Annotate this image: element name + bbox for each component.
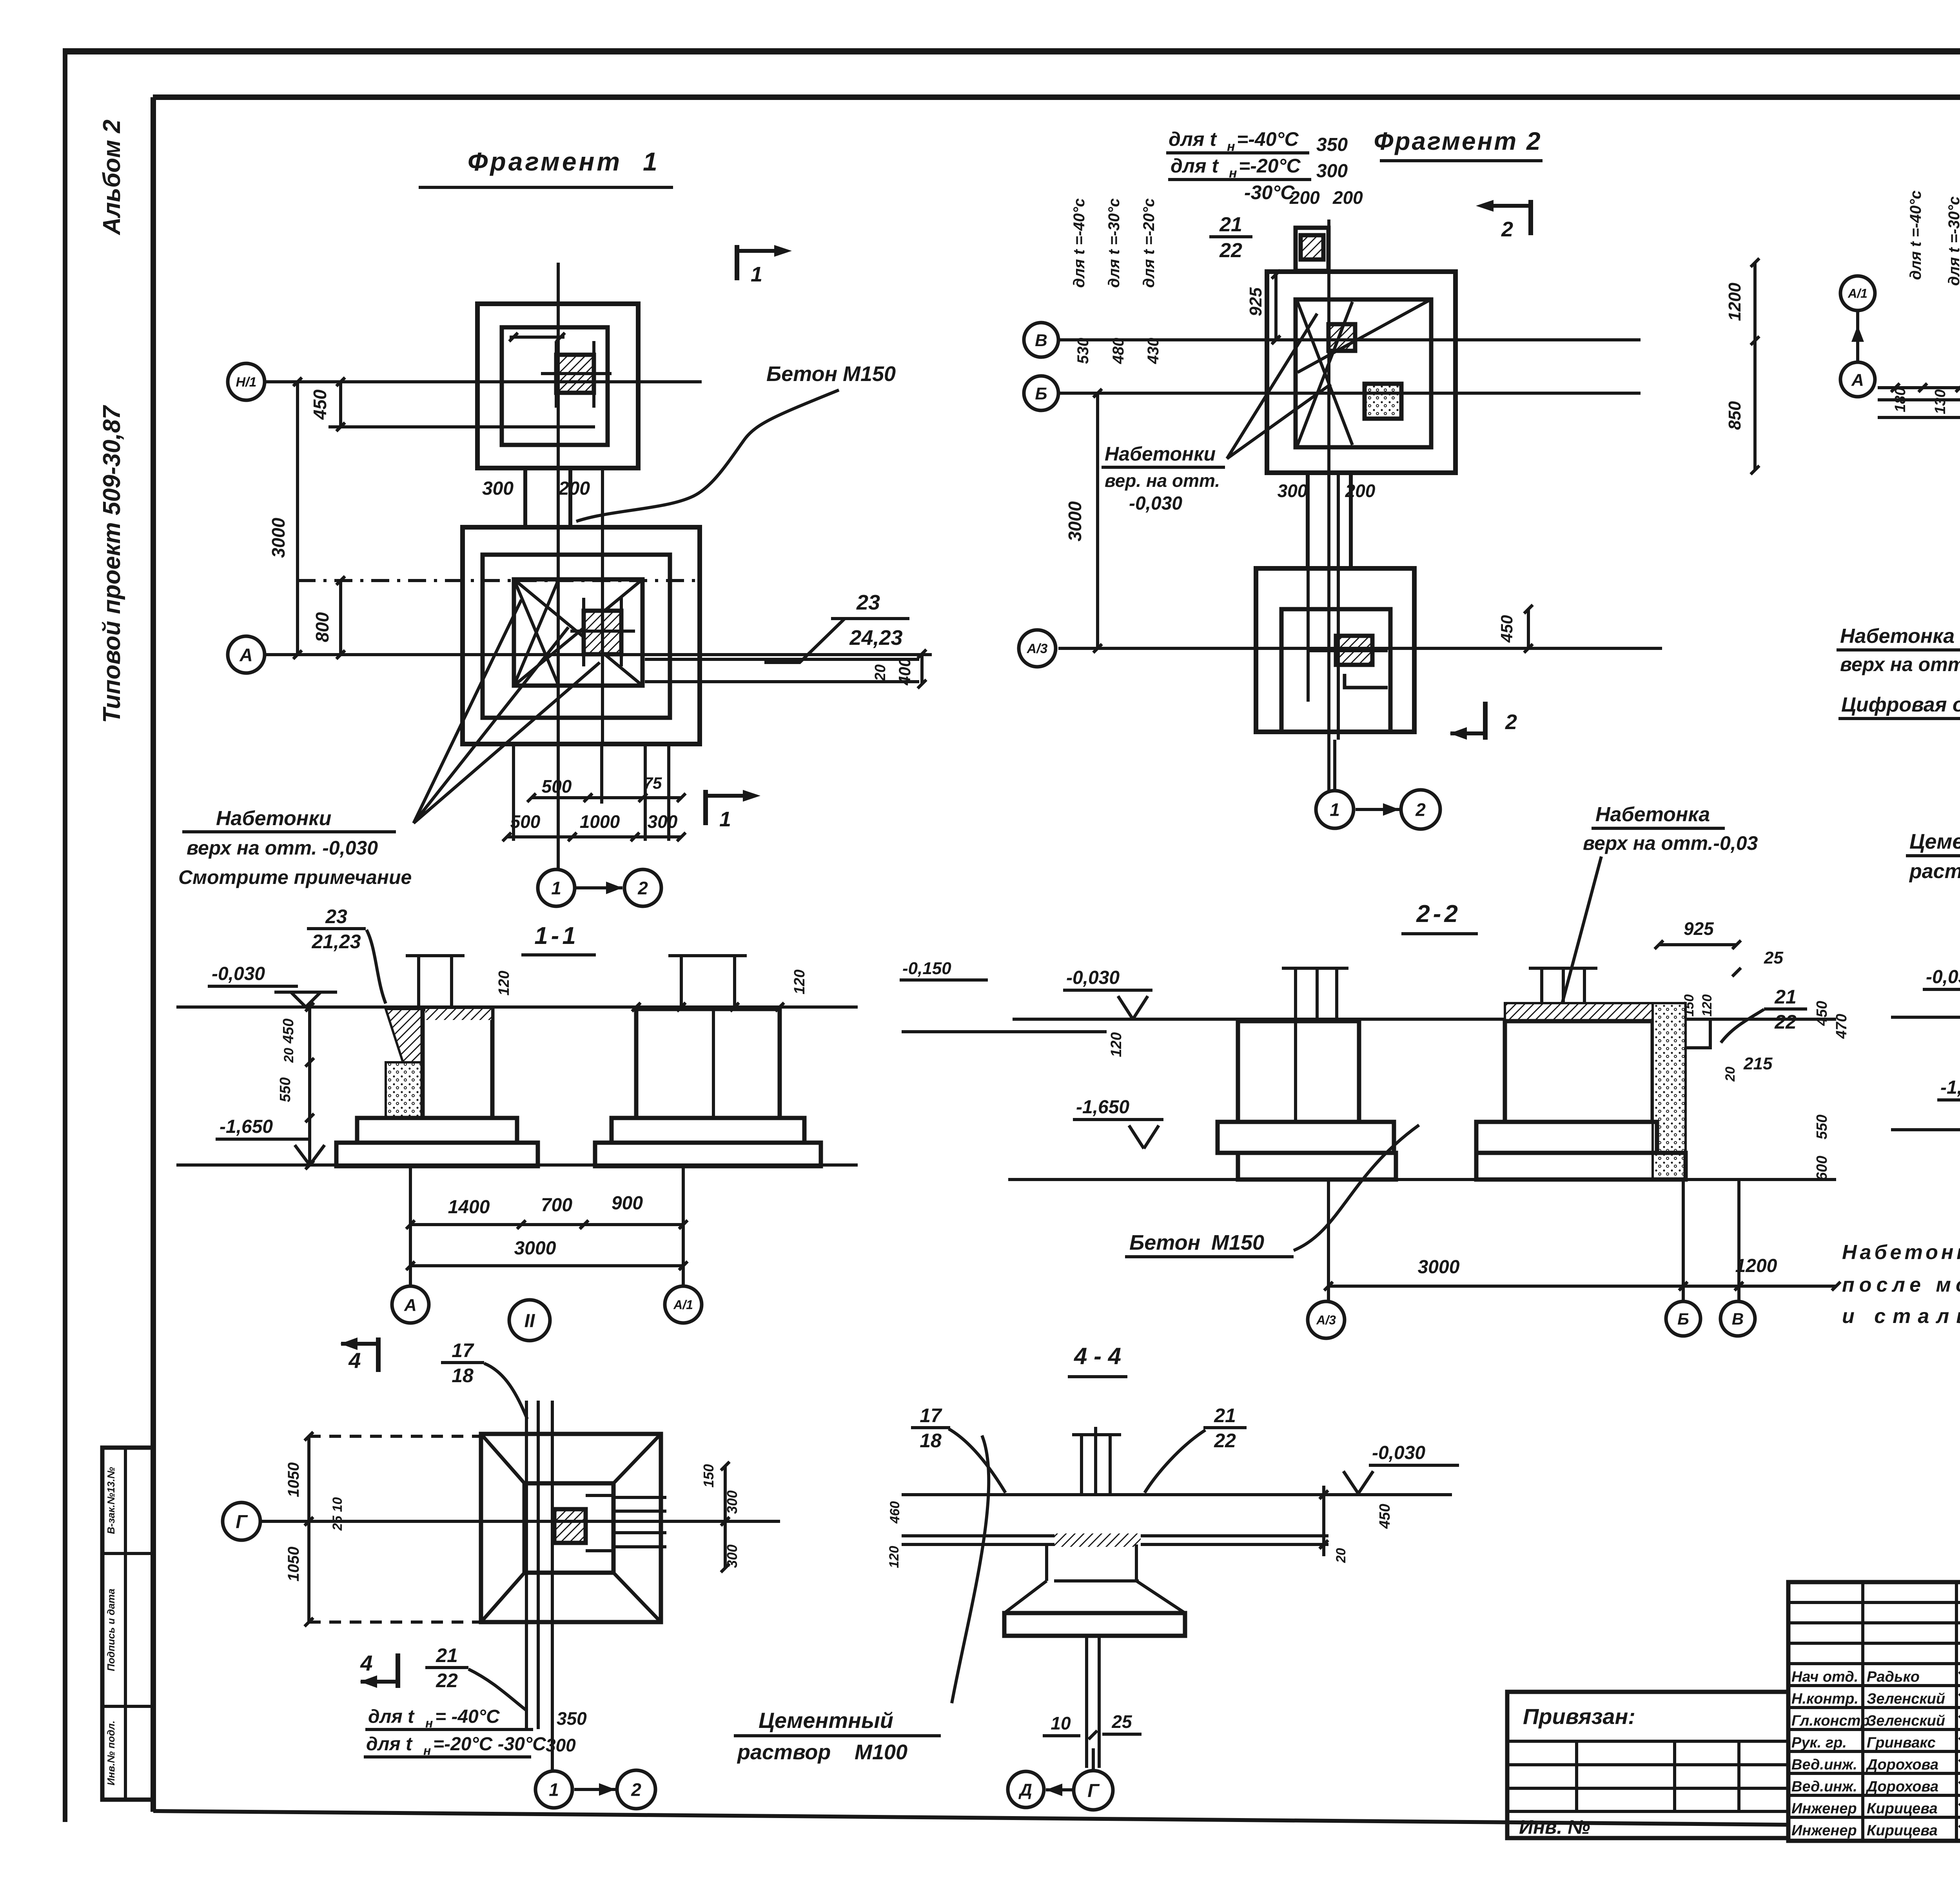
svg-text:450: 450 — [280, 1018, 297, 1043]
svg-text:-30°С: -30°С — [1244, 181, 1295, 203]
svg-text:1: 1 — [549, 1780, 559, 1800]
svg-text:700: 700 — [541, 1195, 572, 1216]
svg-text:-1,650: -1,650 — [1076, 1097, 1129, 1118]
svg-text:800: 800 — [312, 612, 332, 642]
svg-text:= -40°С: = -40°С — [435, 1706, 500, 1727]
svg-text:350: 350 — [1316, 134, 1348, 155]
svg-text:А/1: А/1 — [673, 1298, 693, 1312]
svg-text:2-2: 2-2 — [1416, 900, 1461, 927]
svg-text:470: 470 — [1833, 1014, 1850, 1039]
svg-text:А/3: А/3 — [1316, 1313, 1336, 1327]
svg-text:-0,150: -0,150 — [902, 959, 951, 978]
svg-text:18: 18 — [920, 1430, 942, 1452]
svg-text:300: 300 — [1278, 481, 1308, 501]
svg-text:300: 300 — [546, 1735, 576, 1755]
svg-text:и стальных стоек.: и стальных стоек. — [1842, 1305, 1960, 1328]
svg-text:А: А — [1851, 370, 1864, 390]
svg-text:Бетон: Бетон — [1129, 1231, 1200, 1254]
svg-text:21: 21 — [1214, 1405, 1236, 1426]
svg-text:23: 23 — [856, 591, 880, 614]
svg-text:925: 925 — [1246, 287, 1265, 316]
svg-text:200: 200 — [1289, 187, 1320, 208]
svg-text:А: А — [239, 645, 252, 665]
svg-text:-0,030: -0,030 — [212, 964, 265, 984]
svg-text:4 - 4: 4 - 4 — [1074, 1343, 1121, 1369]
svg-text:500: 500 — [542, 776, 572, 797]
svg-text:120: 120 — [791, 969, 808, 994]
svg-text:Цементный: Цементный — [1909, 830, 1960, 853]
svg-text:Зеленский: Зеленский — [1867, 1691, 1945, 1707]
svg-text:Вед.инж.: Вед.инж. — [1791, 1778, 1857, 1795]
svg-text:120: 120 — [1108, 1032, 1125, 1057]
svg-text:550: 550 — [1814, 1114, 1830, 1139]
svg-text:Инв. №: Инв. № — [1519, 1816, 1590, 1838]
svg-text:Гл.констр: Гл.констр — [1791, 1713, 1870, 1729]
svg-text:150: 150 — [1682, 994, 1697, 1017]
svg-text:для t: для t — [1171, 155, 1219, 177]
svg-text:-0,030: -0,030 — [1926, 967, 1960, 987]
svg-text:Рук. гр.: Рук. гр. — [1791, 1735, 1847, 1751]
svg-text:300: 300 — [648, 811, 678, 832]
svg-text:430: 430 — [1145, 338, 1162, 365]
svg-text:верх на отт. -0,030: верх на отт. -0,030 — [187, 837, 378, 859]
svg-text:120: 120 — [887, 1546, 902, 1568]
svg-text:для t =-20°с: для t =-20°с — [1140, 198, 1158, 288]
svg-text:раствор: раствор — [737, 1740, 831, 1764]
svg-text:2: 2 — [1415, 800, 1426, 820]
svg-text:В: В — [1035, 331, 1047, 350]
svg-text:Инв.№ подл.: Инв.№ подл. — [105, 1720, 117, 1786]
svg-text:1: 1 — [643, 147, 657, 176]
svg-text:Н/1: Н/1 — [236, 375, 257, 390]
svg-text:Фрагмент: Фрагмент — [468, 147, 622, 176]
svg-text:1200: 1200 — [1725, 283, 1744, 321]
svg-text:для t =-30°с: для t =-30°с — [1105, 198, 1123, 288]
svg-text:400: 400 — [895, 658, 914, 686]
svg-text:22: 22 — [1219, 239, 1242, 262]
svg-text:21: 21 — [436, 1644, 458, 1666]
svg-text:21: 21 — [1219, 213, 1242, 236]
svg-text:3000: 3000 — [514, 1238, 556, 1259]
svg-text:2: 2 — [1505, 710, 1517, 734]
svg-text:Смотрите примечание: Смотрите примечание — [178, 866, 412, 888]
svg-text:500: 500 — [510, 811, 541, 832]
svg-text:для t: для t — [366, 1734, 413, 1755]
svg-text:Набетонка: Набетонка — [1840, 625, 1955, 648]
svg-text:3000: 3000 — [268, 517, 289, 558]
svg-text:Альбом 2: Альбом 2 — [98, 120, 125, 236]
svg-text:Привязан:: Привязан: — [1523, 1704, 1635, 1729]
svg-text:18: 18 — [452, 1365, 474, 1386]
svg-text:1050: 1050 — [285, 1463, 302, 1497]
svg-text:480: 480 — [1110, 338, 1127, 365]
svg-text:=-20°С -30°С: =-20°С -30°С — [433, 1734, 546, 1755]
svg-text:22: 22 — [1774, 1011, 1797, 1033]
svg-text:для t =-40°с: для t =-40°с — [1071, 198, 1088, 288]
svg-text:22: 22 — [1214, 1430, 1236, 1452]
svg-text:Набетонки: Набетонки — [216, 807, 331, 830]
svg-text:Д: Д — [1018, 1780, 1032, 1800]
svg-text:120: 120 — [1700, 994, 1715, 1017]
svg-text:200: 200 — [558, 478, 590, 499]
svg-text:В-зак.№13.№: В-зак.№13.№ — [105, 1467, 117, 1534]
svg-text:Цементный: Цементный — [759, 1708, 893, 1733]
svg-text:24,23: 24,23 — [849, 626, 902, 650]
svg-text:1-1: 1-1 — [534, 922, 579, 949]
svg-text:Цифровая ось: Цифровая ось — [1841, 693, 1960, 716]
svg-text:А: А — [404, 1296, 417, 1315]
svg-text:20: 20 — [1334, 1548, 1348, 1563]
svg-text:215: 215 — [1743, 1054, 1773, 1073]
svg-text:25: 25 — [1111, 1711, 1132, 1732]
svg-text:3000: 3000 — [1418, 1257, 1460, 1278]
svg-text:925: 925 — [1684, 918, 1714, 939]
svg-text:М150: М150 — [1211, 1231, 1264, 1254]
svg-text:М100: М100 — [855, 1740, 907, 1764]
svg-text:1200: 1200 — [1735, 1256, 1777, 1276]
svg-text:1000: 1000 — [580, 811, 620, 832]
svg-text:1050: 1050 — [285, 1547, 302, 1582]
svg-text:Г: Г — [236, 1512, 248, 1532]
svg-text:для t: для t — [368, 1706, 415, 1727]
svg-text:2: 2 — [1501, 218, 1513, 241]
svg-text:600: 600 — [1814, 1156, 1830, 1180]
svg-text:вер. на отт.: вер. на отт. — [1105, 470, 1220, 491]
svg-text:350: 350 — [557, 1708, 587, 1729]
svg-text:4: 4 — [360, 1651, 372, 1675]
svg-text:Фрагмент 2: Фрагмент 2 — [1374, 127, 1542, 155]
svg-text:-0,030: -0,030 — [1066, 967, 1120, 988]
svg-text:Дорохова: Дорохова — [1866, 1778, 1938, 1795]
svg-text:после монтажа железобет: после монтажа железобетонных колонн — [1842, 1274, 1960, 1296]
svg-text:Кирицева: Кирицева — [1867, 1822, 1938, 1839]
svg-text:Набетонки: Набетонки — [1105, 443, 1216, 465]
svg-text:Инженер: Инженер — [1791, 1800, 1857, 1817]
svg-text:22: 22 — [436, 1670, 458, 1691]
svg-text:=-40°С: =-40°С — [1237, 128, 1299, 150]
svg-text:450: 450 — [310, 389, 330, 420]
svg-text:-0,030: -0,030 — [1129, 493, 1182, 514]
svg-text:550: 550 — [277, 1077, 294, 1102]
svg-text:21: 21 — [1774, 986, 1797, 1008]
svg-text:верх на отт.-0,030: верх на отт.-0,030 — [1840, 653, 1960, 675]
svg-text:850: 850 — [1725, 401, 1744, 430]
svg-text:75: 75 — [644, 774, 662, 792]
svg-text:20: 20 — [1723, 1067, 1738, 1082]
svg-text:20: 20 — [281, 1048, 296, 1063]
svg-text:130: 130 — [1932, 389, 1949, 414]
svg-text:раствор: раствор — [1909, 860, 1960, 883]
svg-text:150: 150 — [701, 1464, 717, 1488]
svg-text:4: 4 — [348, 1348, 361, 1373]
svg-text:21,23: 21,23 — [311, 931, 361, 953]
svg-text:2: 2 — [637, 878, 648, 898]
svg-text:Нач отд.: Нач отд. — [1791, 1669, 1858, 1685]
svg-text:Набетонки до отт. - 0,030 и: Набетонки до отт. - 0,030 и - 0,100 выпо… — [1842, 1241, 1960, 1264]
svg-text:II: II — [524, 1310, 535, 1331]
svg-text:Радько: Радько — [1867, 1669, 1920, 1685]
svg-text:120: 120 — [496, 971, 512, 995]
svg-text:460: 460 — [887, 1501, 902, 1524]
svg-text:450: 450 — [1497, 615, 1516, 643]
svg-text:450: 450 — [1814, 1001, 1830, 1026]
svg-text:300: 300 — [482, 478, 514, 499]
svg-text:для t: для t — [1169, 128, 1217, 150]
svg-text:20: 20 — [872, 664, 889, 681]
svg-text:Вед.инж.: Вед.инж. — [1791, 1757, 1857, 1773]
svg-text:180: 180 — [1892, 387, 1909, 412]
svg-text:Подпись и дата: Подпись и дата — [105, 1589, 117, 1671]
svg-text:Б: Б — [1035, 384, 1047, 403]
svg-text:Зеленский: Зеленский — [1867, 1713, 1945, 1729]
svg-text:В: В — [1732, 1310, 1744, 1328]
svg-text:Дорохова: Дорохова — [1866, 1757, 1938, 1773]
svg-text:Г: Г — [1087, 1780, 1100, 1801]
svg-text:Гринвакс: Гринвакс — [1867, 1735, 1936, 1751]
svg-text:Кирицева: Кирицева — [1867, 1800, 1938, 1817]
svg-text:530: 530 — [1074, 338, 1092, 364]
svg-text:1400: 1400 — [448, 1197, 490, 1218]
svg-text:Набетонка: Набетонка — [1595, 803, 1710, 826]
svg-text:23: 23 — [325, 906, 347, 927]
svg-text:Н.контр.: Н.контр. — [1791, 1691, 1858, 1707]
svg-text:=-20°С: =-20°С — [1239, 155, 1301, 177]
svg-text:200: 200 — [1332, 187, 1363, 208]
svg-text:-1,650: -1,650 — [220, 1116, 273, 1137]
svg-text:1: 1 — [719, 808, 731, 831]
svg-text:25: 25 — [1764, 948, 1783, 967]
svg-text:3000: 3000 — [1065, 501, 1085, 541]
svg-text:1: 1 — [551, 878, 561, 898]
svg-text:Типовой проект 509-30,87: Типовой проект 509-30,87 — [98, 405, 125, 723]
svg-text:1: 1 — [751, 263, 762, 286]
svg-text:25 10: 25 10 — [330, 1497, 345, 1531]
svg-text:Инженер: Инженер — [1791, 1822, 1857, 1839]
svg-text:А/3: А/3 — [1027, 641, 1048, 656]
svg-text:17: 17 — [920, 1405, 942, 1426]
svg-text:А/1: А/1 — [1847, 287, 1867, 301]
svg-text:2: 2 — [631, 1780, 641, 1800]
svg-text:М150: М150 — [843, 362, 896, 386]
svg-text:-0,030: -0,030 — [1372, 1443, 1425, 1463]
svg-text:Б: Б — [1677, 1310, 1689, 1328]
svg-text:900: 900 — [612, 1193, 643, 1214]
svg-text:17: 17 — [452, 1339, 474, 1361]
svg-text:300: 300 — [1316, 161, 1348, 181]
svg-text:для t =-40°с: для t =-40°с — [1907, 191, 1924, 280]
svg-text:200: 200 — [1345, 481, 1376, 501]
svg-text:верх на отт.-0,03: верх на отт.-0,03 — [1583, 832, 1758, 854]
svg-text:450: 450 — [1377, 1504, 1393, 1529]
svg-text:Бетон: Бетон — [766, 362, 837, 386]
svg-text:10: 10 — [1051, 1713, 1071, 1733]
svg-text:1: 1 — [1330, 800, 1340, 820]
svg-text:для t =-30°с: для t =-30°с — [1945, 196, 1960, 286]
svg-text:-1,650: -1,650 — [1940, 1077, 1960, 1098]
